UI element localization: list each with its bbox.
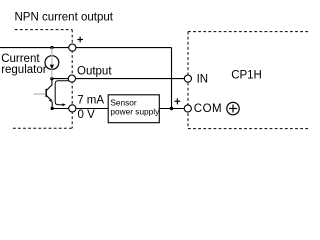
svg-text:regulator: regulator (1, 64, 47, 76)
dashed box: NPN sensor region, right edge (71, 30, 73, 129)
label: + (COM polarity) (175, 98, 181, 104)
svg-text:CP1H: CP1H (231, 69, 262, 81)
dashed box: CP1H PLC, bottom edge (188, 128, 310, 130)
base bar (45, 89, 47, 97)
svg-text:Output: Output (77, 65, 112, 77)
svg-text:7 mA: 7 mA (77, 95, 104, 107)
node B: output / collector junction (50, 77, 53, 80)
wire: + supply line horizontal (0, 47, 172, 49)
node C: emitter / 0V junction (51, 107, 54, 110)
base lead (internal, gray) (34, 93, 46, 95)
svg-text:IN: IN (197, 73, 209, 85)
svg-text:power supply: power supply (110, 107, 160, 117)
current flow arrow: 7 mA loop (55, 81, 69, 106)
svg-text:NPN current output: NPN current output (15, 12, 114, 24)
current regulator CS1 (45, 48, 59, 79)
node D: supply drop / COM junction (170, 107, 173, 110)
dashed box: CP1H PLC, top edge (188, 31, 310, 33)
wire: + supply line vertical drop to COM (171, 48, 173, 109)
terminal: Output (68, 75, 75, 82)
sensor power supply box (108, 95, 160, 123)
dashed box: NPN sensor region, bottom edge (13, 127, 72, 129)
terminal: + supply (69, 44, 76, 51)
wire: output line to IN (52, 78, 185, 80)
label: + (supply polarity) (77, 37, 83, 43)
svg-text:COM: COM (194, 103, 222, 115)
collector lead (46, 79, 52, 91)
svg-text:0 V: 0 V (78, 109, 96, 121)
dashed box: NPN sensor region, top edge (15, 29, 72, 31)
wire: 0V line to sensor power supply (52, 108, 108, 110)
dashed box: CP1H PLC, left edge (187, 32, 189, 129)
terminal: 0 V (69, 105, 76, 112)
terminal: COM (184, 105, 191, 112)
terminal: IN (184, 75, 191, 82)
wire: sensor power supply to COM (159, 108, 185, 110)
transistor Q1 (34, 79, 53, 109)
symbol: circled plus (+) after COM (227, 102, 239, 114)
node A: + wire / regulator junction (50, 46, 53, 49)
emitter lead with arrow (46, 95, 50, 99)
